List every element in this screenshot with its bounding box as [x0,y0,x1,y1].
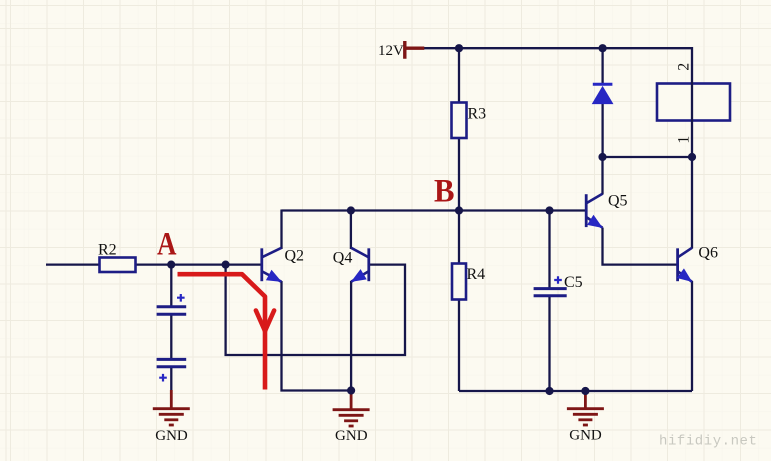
wire R3 bottom to node B [458,137,460,211]
junction emitter rail / GND2 [347,386,355,394]
wire R4 top [458,211,460,265]
wire Q5 emitter to Q6 base [603,228,678,265]
wire diode bottom [601,104,603,158]
junction relay pin 1 / Q6 collector [688,153,696,161]
junction bottom rail / GND3 [581,387,589,395]
capacitor C1 plates [157,305,187,308]
wire C2 to ground [170,368,172,393]
red current path [178,274,266,389]
resistor R2 [100,258,136,273]
junction node B rail / C5 [545,206,553,214]
wire Q2 collector [280,210,282,250]
diode D1 cathode bar [593,83,613,86]
resistor R3 [452,103,467,139]
relay K1 body [657,84,730,121]
ground GND1 [153,390,190,425]
svg-text:R4: R4 [467,266,486,283]
wire Q5 collector [601,157,603,195]
wire diode top from rail [601,48,603,84]
junction node B rail / R3-R4 [455,206,463,214]
junction 12V rail / R3 [455,44,463,52]
capacitor C5 plates [534,287,567,290]
junction bottom rail / C5 [545,387,553,395]
svg-text:R3: R3 [468,106,487,123]
svg-text:B: B [434,174,455,210]
svg-text:GND: GND [569,428,602,444]
junction node B rail / Q4 collector [347,206,355,214]
transistor Q6 [678,248,692,282]
capacitor C2 plates [157,358,187,361]
wire node A to C1 [170,265,172,306]
junction diode / Q5 collector [598,153,606,161]
wire Q6 collector [691,157,693,249]
wire C5 top [548,211,550,288]
red arrowhead [256,311,274,332]
svg-text:GND: GND [155,428,188,444]
svg-text:Q6: Q6 [698,245,718,262]
wire node B rail [282,209,586,211]
wire Q4 base feedback loop to node A [226,265,405,355]
junction 12V rail / diode [599,44,607,52]
svg-text:2: 2 [676,63,693,71]
wire C1 to C2 [170,315,172,359]
wire R4 bottom [458,299,460,391]
svg-text:R2: R2 [98,242,117,259]
transistor Q4 [351,248,369,282]
svg-text:12V: 12V [378,43,404,59]
wire bottom right rail [459,390,692,392]
junction node A / feedback loop [222,261,230,269]
wire C5 bottom [548,297,550,391]
transistor Q5 [586,194,602,228]
wire 12V rail to relay top [423,48,692,157]
wire Q4 emitter [350,281,352,391]
ground GND2 [333,392,370,426]
svg-text:A: A [157,227,177,263]
wire R2 to Q2 base through node A [135,263,261,265]
diode D1 triangle [593,87,613,104]
wire Q4 collector [350,210,352,250]
wire Q6 emitter [691,281,693,391]
ground GND3 [567,392,604,425]
transistor Q2 [262,248,282,282]
wire diode-to-relay link [603,156,692,158]
svg-text:Q5: Q5 [608,193,628,210]
wire R3 top [458,48,460,103]
capacitor C1 plus sign [177,294,185,302]
wire Q2 emitter to bottom left rail [282,281,352,391]
resistor R4 [452,264,466,300]
wire input left of R2 [46,263,100,265]
svg-text:Q4: Q4 [333,250,353,267]
capacitor C5 plus sign [554,276,562,284]
svg-text:C5: C5 [564,274,583,291]
power port 12V bar [405,41,425,59]
svg-text:1: 1 [676,136,693,144]
svg-text:GND: GND [335,428,368,444]
svg-text:hifidiy.net: hifidiy.net [659,434,757,450]
svg-text:Q2: Q2 [285,248,305,265]
capacitor C2 plus sign [159,374,167,382]
junction node A [167,261,175,269]
